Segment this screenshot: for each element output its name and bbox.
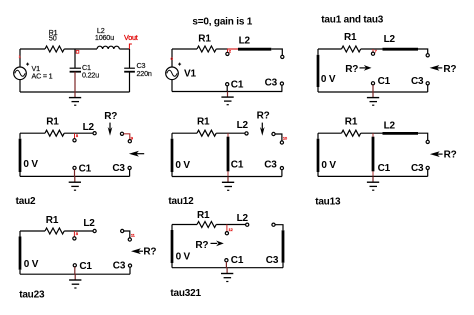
svg-text:R?: R? xyxy=(443,64,456,75)
svg-text:R1: R1 xyxy=(197,117,210,128)
svg-text:L2: L2 xyxy=(83,218,95,229)
svg-text:0 V: 0 V xyxy=(175,160,190,171)
svg-text:C1: C1 xyxy=(79,163,92,174)
wire c1 R1 to L2 xyxy=(64,48,97,50)
svg-text:C3: C3 xyxy=(265,78,278,89)
svg-text:R1: R1 xyxy=(198,34,211,45)
port circle L2 left t321 xyxy=(246,223,249,226)
svg-text:tau1 and tau3: tau1 and tau3 xyxy=(321,14,383,25)
arrow left t2 xyxy=(129,151,144,157)
inductor L2 shorted bar c2 xyxy=(238,48,271,51)
wire R1 to L2 port t12 xyxy=(216,132,245,134)
wire top left c2 xyxy=(172,48,197,50)
arrow R? down t2 xyxy=(104,111,117,136)
svg-text:C3: C3 xyxy=(112,163,125,174)
svg-text:R?: R? xyxy=(345,64,358,75)
svg-text:s=0, gain is 1: s=0, gain is 1 xyxy=(192,17,252,28)
wire left lower c1 xyxy=(19,80,21,92)
port circle C3 bottom t12 xyxy=(280,167,283,170)
svg-text:R?: R? xyxy=(195,240,208,251)
wire hook L2 right to C3 top t12 xyxy=(275,134,282,141)
wire bottom t2 xyxy=(20,175,130,177)
svg-text:L2: L2 xyxy=(384,121,396,132)
wire R1 to node to bar t13 xyxy=(361,132,383,134)
wire hook L2 right to C3 top t2 xyxy=(124,134,130,140)
shorted source bar 0V t13 xyxy=(317,133,319,176)
wire top left c3 xyxy=(318,48,342,50)
wire bar to right corner c2 xyxy=(271,49,282,55)
svg-text:R?: R? xyxy=(444,150,457,161)
wire top left t13 xyxy=(318,132,342,134)
svg-text:tau321: tau321 xyxy=(170,288,201,299)
wire bottom t321 xyxy=(172,267,283,269)
shorted source bar 0V t12 xyxy=(171,133,173,176)
svg-text:1060u: 1060u xyxy=(95,33,114,42)
source V1 c2 xyxy=(166,63,181,80)
arrow R? right t321 xyxy=(195,240,223,251)
svg-text:L2: L2 xyxy=(83,122,95,133)
wire hook L2 right to C3 top t23 xyxy=(124,231,130,238)
svg-text:tau23: tau23 xyxy=(19,290,45,301)
wire R1 to node c2 xyxy=(216,48,227,50)
svg-text:R1: R1 xyxy=(344,32,357,43)
stub C3 bottom t12 xyxy=(281,170,283,177)
svg-text:0.22u: 0.22u xyxy=(82,71,99,80)
shorted source bar 0V c3 xyxy=(317,49,319,92)
arrow R? left c3 xyxy=(430,64,457,75)
svg-text:tau2: tau2 xyxy=(16,196,36,207)
stub C3 bottom t13 xyxy=(427,170,429,177)
svg-text:C1: C1 xyxy=(378,163,391,174)
svg-text:0 V: 0 V xyxy=(321,74,336,85)
stub C1 bottom c3 xyxy=(372,85,374,92)
port circle C3 top t12 xyxy=(280,141,283,144)
wire bottom t13 xyxy=(318,175,428,177)
svg-text:0 V: 0 V xyxy=(24,259,39,270)
inductor L2 c1 xyxy=(97,46,119,49)
capacitor C3 shorted bar t321 xyxy=(282,230,285,262)
wire bottom c1 xyxy=(20,91,130,93)
arrow R? left t13 xyxy=(430,150,457,161)
svg-text:tau12: tau12 xyxy=(168,196,194,207)
source V1 c1 xyxy=(14,63,29,80)
arrow R? left t23 xyxy=(131,246,156,257)
svg-text:R?: R? xyxy=(257,111,270,122)
port circle L2 right t2 xyxy=(120,132,123,135)
port circle C3 bottom c2 xyxy=(280,82,283,85)
svg-text:C1: C1 xyxy=(231,79,244,90)
svg-text:R1: R1 xyxy=(46,215,59,226)
wire top left t23 xyxy=(20,230,45,232)
stub C3 bottom c3 xyxy=(427,85,429,92)
svg-text:AC = 1: AC = 1 xyxy=(32,72,53,81)
node A stub and port circle C1 top t321 xyxy=(226,225,228,232)
inductor L2 shorted bar c3 xyxy=(383,48,419,51)
stub C3 bottom t2 xyxy=(129,170,131,177)
port circle C3 bottom c3 xyxy=(426,82,429,85)
arrow R? down t12 xyxy=(257,111,270,136)
port circle L2 left t12 xyxy=(245,132,248,135)
port circle C1 bottom t321 xyxy=(225,259,228,262)
wire top left t2 xyxy=(20,132,45,134)
wire top left t12 xyxy=(172,132,197,134)
wire node to L2 bar red c2 xyxy=(228,48,239,50)
svg-text:C3: C3 xyxy=(264,160,277,171)
svg-text:0 V: 0 V xyxy=(23,159,38,170)
svg-text:L2: L2 xyxy=(237,120,249,131)
port circle C3 top t23 xyxy=(128,238,131,241)
resistor R1 c1 xyxy=(45,46,64,52)
ground t13 xyxy=(367,176,379,190)
wire R1 to L2 port t23 xyxy=(64,230,93,232)
capacitor C1 c1 xyxy=(70,49,81,92)
port circle C3 top t13 xyxy=(426,140,429,143)
svg-text:Vout: Vout xyxy=(124,33,138,42)
svg-text:0 V: 0 V xyxy=(321,160,336,171)
port circle L2 right t12 xyxy=(272,132,275,135)
port circle C1 bottom t23 xyxy=(73,264,76,267)
wire c1 L2 to Vout node xyxy=(119,48,129,50)
ground t2 xyxy=(69,176,81,190)
node A stub and port circle C1 top t2 xyxy=(74,133,76,139)
svg-text:R1: R1 xyxy=(46,117,59,128)
wire bottom c3 xyxy=(318,91,428,93)
node Vout marker c1 xyxy=(129,44,132,50)
wire bottom c2 xyxy=(172,91,282,93)
svg-text:C1: C1 xyxy=(79,261,92,272)
stub C1 bottom t321 xyxy=(225,262,227,268)
svg-text:220n: 220n xyxy=(137,69,152,78)
shorted source bar 0V t2 xyxy=(19,133,21,176)
arrow R? right c3 xyxy=(345,64,371,75)
resistor R1 t2 xyxy=(45,130,64,136)
wire bar to right corner t13 xyxy=(418,133,428,140)
node A stub and port circle c2 xyxy=(227,49,229,52)
ground c3 xyxy=(367,92,379,105)
svg-text:R?: R? xyxy=(143,246,156,257)
svg-text:L2: L2 xyxy=(384,34,396,45)
resistor R1 t13 xyxy=(342,130,361,136)
svg-text:L2: L2 xyxy=(237,213,249,224)
svg-text:0 V: 0 V xyxy=(176,251,191,262)
stub C1 bottom c2 xyxy=(226,86,228,92)
port circle C3 top t2 xyxy=(128,140,131,143)
svg-text:L2: L2 xyxy=(239,35,251,46)
resistor R1 t23 xyxy=(45,228,64,234)
wire L2 right to C3 bar t321 xyxy=(275,225,283,231)
port circle C3 bottom t2 xyxy=(128,166,131,169)
port circle C1 bottom c3 xyxy=(371,82,374,85)
stub C1 bottom t2 xyxy=(74,170,76,177)
resistor R1 t321 xyxy=(197,222,216,228)
capacitor C1 shorted bar t13 xyxy=(372,133,374,176)
wire left upper c1 xyxy=(19,49,21,67)
wire R1 to node to bar c3 xyxy=(361,48,383,50)
capacitor C3 c1 xyxy=(124,49,135,92)
svg-text:C3: C3 xyxy=(411,163,424,174)
shorted source bar 0V t321 xyxy=(171,225,173,268)
port circle C3 bottom t13 xyxy=(426,166,429,169)
wire top c1 xyxy=(20,48,45,50)
ground c2 xyxy=(221,92,233,105)
svg-text:V1: V1 xyxy=(184,69,196,80)
wire bottom t12 xyxy=(172,176,282,178)
port circle C3 top c2 xyxy=(281,55,284,58)
svg-text:R1: R1 xyxy=(345,117,358,128)
port circle L2 right t321 xyxy=(272,223,275,226)
shorted source bar 0V t23 xyxy=(19,231,21,274)
port circle L2 right t23 xyxy=(121,229,124,232)
wire top left t321 xyxy=(172,224,197,226)
port circle L2 left t2 xyxy=(93,132,96,135)
stub C3 bottom t23 xyxy=(129,267,131,274)
wire left upper c2 xyxy=(171,49,173,67)
svg-text:R1: R1 xyxy=(197,210,210,221)
svg-text:C3: C3 xyxy=(113,261,126,272)
svg-text:50: 50 xyxy=(49,34,57,43)
inductor L2 shorted bar t13 xyxy=(383,132,419,135)
svg-text:C1: C1 xyxy=(378,76,391,87)
svg-text:R?: R? xyxy=(104,111,117,122)
wire C3 bar to bottom t321 xyxy=(282,263,284,268)
wire bar to right corner c3 xyxy=(418,49,428,54)
ground c1 xyxy=(69,92,81,105)
wire R1 to L2 port t321 xyxy=(216,224,245,226)
stub C1 bottom t23 xyxy=(74,267,76,274)
stub C3 bottom c2 xyxy=(281,85,283,91)
wire R1 to L2 port t2 xyxy=(64,132,93,134)
wire bottom t23 xyxy=(20,273,130,275)
ground t12 xyxy=(222,177,234,191)
svg-text:tau13: tau13 xyxy=(315,196,341,207)
node A red marker c1 xyxy=(76,50,79,53)
capacitor C1 shorted bar t12 xyxy=(227,133,229,176)
port circle C3 bottom t23 xyxy=(128,264,131,267)
ground t23 xyxy=(69,274,81,288)
resistor R1 c2 xyxy=(197,46,216,52)
ground t321 xyxy=(221,268,233,282)
resistor R1 t12 xyxy=(197,130,216,136)
resistor R1 c3 xyxy=(342,46,361,52)
port circle L2 left t23 xyxy=(93,229,96,232)
port circle C1 bottom c2 xyxy=(226,83,229,86)
node A stub and port circle C1 top c3 xyxy=(372,49,374,52)
svg-text:C1: C1 xyxy=(231,160,244,171)
svg-text:C3: C3 xyxy=(266,255,279,266)
wire left lower c2 xyxy=(171,80,173,92)
node A stub and port circle C1 top t23 xyxy=(73,231,75,237)
port circle C1 bottom t2 xyxy=(73,166,76,169)
svg-text:C1: C1 xyxy=(231,255,244,266)
svg-text:C3: C3 xyxy=(411,76,424,87)
port circle C3 top c3 xyxy=(426,54,429,57)
